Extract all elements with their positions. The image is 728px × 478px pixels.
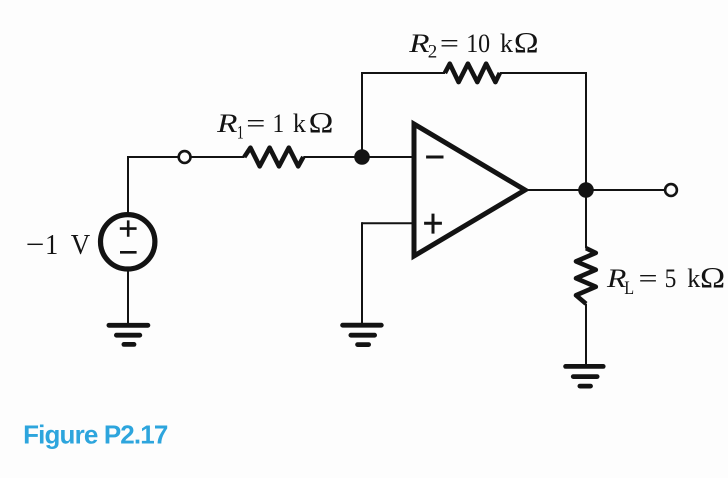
svg-text:Figure P2.17: Figure P2.17 (23, 420, 168, 450)
resistor R1 (244, 148, 303, 167)
node A (inverting input junction) (354, 149, 370, 165)
ground (noninverting input) (343, 325, 382, 344)
svg-text:=: = (440, 29, 459, 58)
wire noninverting input horizontal (362, 222, 414, 224)
wire output node down to RL (585, 190, 587, 249)
svg-text:L: L (624, 277, 634, 299)
svg-text:=: = (246, 109, 265, 138)
wire top-left horizontal (127, 156, 178, 158)
svg-text:V: V (71, 229, 90, 261)
svg-text:−: − (26, 228, 45, 261)
wire R1 to op-amp inverting input (303, 156, 414, 158)
svg-text:1: 1 (45, 228, 58, 261)
svg-text:1: 1 (273, 110, 285, 138)
wire source bottom vertical (127, 269, 129, 325)
wire feedback top right segment (500, 72, 587, 74)
svg-text:k: k (687, 264, 700, 293)
node B (output junction) (578, 182, 594, 198)
wire source top vertical (127, 157, 129, 214)
output terminal (open circle) (665, 184, 677, 196)
svg-text:10: 10 (466, 30, 490, 58)
wire feedback top left segment (361, 72, 445, 74)
svg-text:R: R (216, 110, 237, 139)
resistor RL (576, 248, 596, 304)
svg-text:k: k (293, 109, 306, 138)
wire op-amp output (525, 189, 664, 191)
svg-text:Ω: Ω (514, 26, 539, 59)
svg-text:k: k (500, 29, 513, 58)
wire feedback vertical left (361, 73, 363, 157)
wire noninverting input vertical down (361, 222, 363, 325)
wire feedback vertical right (down to output node) (585, 72, 587, 190)
ground (RL) (566, 366, 604, 386)
wire RL to ground (585, 304, 587, 367)
ground (source) (109, 325, 148, 344)
op-amp noninverting input marker (plus) (424, 214, 442, 234)
label RL = 5 kOhm (606, 260, 725, 298)
op-amp U1 (414, 124, 525, 256)
svg-text:=: = (639, 264, 658, 293)
svg-text:R: R (408, 29, 429, 58)
voltage source Vs (101, 215, 155, 269)
svg-text:Ω: Ω (309, 106, 334, 139)
label R1 = 1 kOhm (216, 106, 333, 143)
label R2 = 10 kOhm (408, 26, 538, 63)
svg-text:5: 5 (665, 265, 677, 293)
input terminal (open circle) (179, 151, 191, 163)
svg-text:2: 2 (428, 42, 438, 63)
label -1 V (26, 228, 90, 262)
svg-text:1: 1 (237, 121, 244, 143)
op-amp inverting input marker (minus) (426, 156, 443, 159)
svg-text:Ω: Ω (700, 260, 725, 294)
resistor R2 (445, 64, 500, 82)
caption Figure P2.17 (23, 420, 168, 450)
wire terminal to R1 (191, 156, 244, 158)
